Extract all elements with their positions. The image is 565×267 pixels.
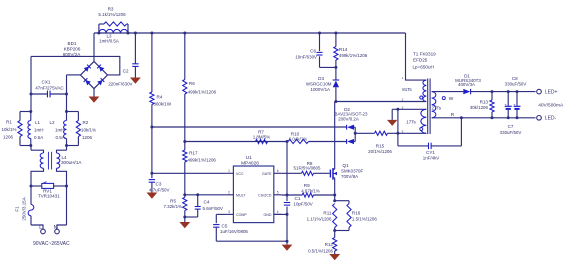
- svg-text:R14: R14: [339, 47, 348, 52]
- svg-text:SMK0370F: SMK0370F: [341, 169, 363, 174]
- svg-text:LED-: LED-: [545, 116, 557, 122]
- svg-text:CS/ZCD: CS/ZCD: [258, 193, 272, 197]
- svg-text:400V/3A: 400V/3A: [458, 82, 475, 87]
- svg-text:81Ts: 81Ts: [402, 87, 412, 92]
- svg-text:1mH: 1mH: [34, 128, 44, 133]
- svg-text:10k/1%: 10k/1%: [81, 128, 96, 133]
- svg-text:R9: R9: [304, 183, 310, 188]
- svg-text:47nF/275VAC: 47nF/275VAC: [35, 86, 64, 91]
- svg-text:499k/1%/1206: 499k/1%/1206: [339, 53, 368, 58]
- svg-text:C7: C7: [508, 124, 514, 129]
- svg-text:0.5A: 0.5A: [56, 135, 65, 140]
- svg-text:R5: R5: [170, 199, 176, 204]
- svg-text:1206: 1206: [82, 135, 93, 140]
- svg-text:40V/500mA: 40V/500mA: [538, 103, 564, 109]
- svg-text:R3: R3: [108, 7, 114, 12]
- svg-text:R15: R15: [376, 143, 385, 148]
- svg-text:499k/1%/1206: 499k/1%/1206: [188, 90, 217, 95]
- svg-text:C6: C6: [310, 49, 316, 54]
- svg-text:R: R: [451, 112, 455, 118]
- svg-text:1.8M/5%: 1.8M/5%: [253, 134, 271, 139]
- svg-text:R13: R13: [480, 100, 489, 105]
- svg-text:L1: L1: [35, 120, 41, 125]
- svg-text:4.7uF/50V: 4.7uF/50V: [149, 187, 170, 192]
- svg-text:1: 1: [402, 76, 404, 80]
- svg-text:R12: R12: [325, 242, 334, 247]
- svg-text:5: 5: [402, 129, 404, 133]
- svg-text:N: N: [54, 225, 58, 231]
- svg-text:R17: R17: [189, 150, 198, 155]
- svg-text:C4: C4: [204, 200, 210, 205]
- svg-text:CX1: CX1: [42, 80, 51, 85]
- svg-text:700V/8A: 700V/8A: [341, 174, 358, 179]
- svg-text:330uF/50V: 330uF/50V: [500, 130, 522, 135]
- svg-text:C5: C5: [222, 224, 228, 229]
- svg-text:4: 4: [277, 210, 279, 214]
- svg-text:1000V/1A: 1000V/1A: [311, 87, 331, 92]
- svg-text:220nF/630V: 220nF/630V: [108, 82, 132, 87]
- svg-text:R6: R6: [189, 81, 195, 86]
- svg-text:GATE: GATE: [262, 172, 272, 176]
- svg-text:2: 2: [402, 98, 404, 102]
- svg-text:0.5A: 0.5A: [34, 135, 43, 140]
- svg-text:6: 6: [277, 169, 279, 173]
- svg-text:10nF/630V: 10nF/630V: [295, 54, 317, 59]
- svg-text:90VAC~265VAC: 90VAC~265VAC: [33, 241, 70, 247]
- svg-text:R2: R2: [83, 120, 89, 125]
- svg-text:EFD25: EFD25: [413, 57, 428, 62]
- svg-text:CY1: CY1: [426, 150, 435, 155]
- svg-text:U1: U1: [246, 155, 252, 161]
- svg-text:10k/1%: 10k/1%: [2, 127, 17, 132]
- svg-text:R4: R4: [157, 95, 163, 100]
- svg-text:5: 5: [277, 190, 279, 194]
- svg-text:BD1: BD1: [68, 41, 77, 46]
- svg-text:1uF/16V/0805: 1uF/16V/0805: [220, 229, 248, 234]
- svg-text:1.5/1%/1206: 1.5/1%/1206: [352, 217, 377, 222]
- svg-text:F1: F1: [15, 206, 20, 212]
- svg-text:27Ts: 27Ts: [432, 106, 442, 111]
- svg-text:COMP: COMP: [236, 213, 247, 217]
- svg-text:5.6nF/50V: 5.6nF/50V: [203, 206, 224, 211]
- svg-text:300uH/1A: 300uH/1A: [61, 160, 82, 165]
- svg-text:20/1%/1206: 20/1%/1206: [368, 149, 392, 154]
- svg-text:1mH: 1mH: [55, 128, 65, 133]
- svg-text:R16: R16: [352, 210, 361, 215]
- svg-text:200V/0.2A: 200V/0.2A: [338, 116, 359, 121]
- svg-text:MP4026: MP4026: [241, 160, 259, 166]
- svg-text:R11: R11: [323, 210, 332, 215]
- svg-text:WSRGC10M: WSRGC10M: [306, 81, 332, 86]
- svg-text:VCC: VCC: [236, 172, 244, 176]
- svg-text:KBP206: KBP206: [64, 46, 81, 51]
- svg-text:Q1: Q1: [343, 163, 350, 168]
- svg-text:GND: GND: [264, 213, 272, 217]
- svg-text:6.04k/1%: 6.04k/1%: [289, 136, 308, 141]
- svg-text:T1 FK0319: T1 FK0319: [413, 51, 436, 56]
- svg-text:Lp=650uH: Lp=650uH: [413, 64, 434, 69]
- svg-text:600V/2A: 600V/2A: [63, 52, 82, 57]
- svg-text:10pF/50V: 10pF/50V: [294, 202, 313, 207]
- svg-text:1mH/0.5A: 1mH/0.5A: [99, 39, 119, 44]
- svg-text:360k/1W: 360k/1W: [154, 102, 172, 107]
- svg-text:7.32k/1%: 7.32k/1%: [163, 204, 182, 209]
- svg-text:W: W: [449, 96, 454, 102]
- svg-text:L: L: [39, 225, 42, 231]
- svg-text:5.1k/1%/1206: 5.1k/1%/1206: [98, 12, 126, 17]
- svg-text:3: 3: [228, 210, 230, 214]
- svg-text:51R/5%/0805: 51R/5%/0805: [294, 166, 321, 171]
- svg-text:499k/1%/1206: 499k/1%/1206: [188, 158, 217, 163]
- svg-text:D3: D3: [318, 76, 324, 81]
- svg-text:TVR10431: TVR10431: [38, 194, 60, 199]
- svg-text:C8: C8: [512, 76, 518, 81]
- svg-text:C2: C2: [123, 69, 129, 74]
- svg-text:C1: C1: [295, 196, 301, 201]
- svg-text:17Ts: 17Ts: [406, 119, 416, 124]
- svg-text:4.97k/1%: 4.97k/1%: [301, 189, 320, 194]
- svg-text:MULT: MULT: [236, 193, 246, 197]
- svg-text:LED+: LED+: [545, 89, 558, 95]
- svg-text:30k/1206: 30k/1206: [470, 105, 489, 110]
- svg-text:1nF/4kV: 1nF/4kV: [423, 156, 440, 161]
- svg-text:1206: 1206: [3, 135, 14, 140]
- svg-text:330uF/50V: 330uF/50V: [505, 81, 527, 86]
- svg-text:1: 1: [228, 169, 230, 173]
- svg-text:1.1/1%/1206: 1.1/1%/1206: [307, 217, 332, 222]
- svg-text:0.5/1%/1206: 0.5/1%/1206: [308, 248, 333, 253]
- svg-text:R1: R1: [6, 119, 12, 124]
- svg-text:250V/3.15A: 250V/3.15A: [22, 197, 27, 220]
- svg-text:3: 3: [402, 105, 404, 109]
- svg-text:C3: C3: [156, 182, 162, 187]
- svg-text:2: 2: [228, 190, 230, 194]
- svg-text:L2: L2: [49, 120, 55, 125]
